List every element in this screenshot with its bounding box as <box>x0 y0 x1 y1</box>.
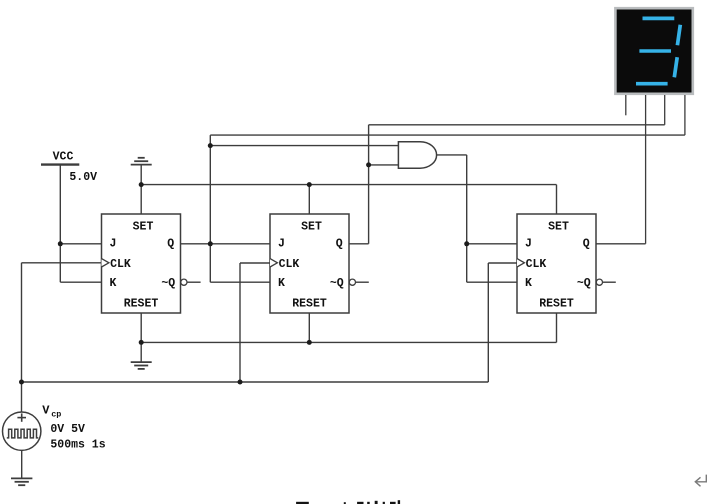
wire CLK1 <box>22 262 102 264</box>
wire AND output drop <box>466 155 468 282</box>
JK flip-flop U1 <box>102 214 187 313</box>
svg-text:~Q: ~Q <box>577 277 591 290</box>
wire RESET stub U3 <box>556 313 558 343</box>
JK flip-flop U2 <box>270 214 356 313</box>
wire CLK3 <box>488 262 517 264</box>
wire CLK3 drop <box>487 263 489 382</box>
wire SET stub U3 <box>556 185 558 214</box>
wire ~Q1 stub <box>187 281 201 283</box>
junction SET bus / ground <box>139 182 144 187</box>
svg-text:500ms 1s: 500ms 1s <box>50 439 105 452</box>
svg-text:Q: Q <box>167 238 174 251</box>
wire ~Q3 stub <box>603 281 616 283</box>
junction VCC / J1 <box>58 241 63 246</box>
junction Q1/displayline <box>208 143 213 148</box>
svg-text:SET: SET <box>301 221 322 234</box>
wire clock bus <box>22 381 489 383</box>
wire CLK2 <box>240 262 270 264</box>
wire VCC to K1 <box>60 281 101 283</box>
wire Q2 to AND input B <box>369 164 399 166</box>
wire Q1 to AND input A <box>210 145 398 147</box>
wire Q1 riser (node Q1) <box>209 135 211 282</box>
display pin 3 wire <box>664 95 666 125</box>
paragraph return mark <box>695 475 706 487</box>
junction RESET bus / U2 <box>307 340 312 345</box>
display pin 2 wire to Q3 <box>645 95 647 244</box>
svg-text:V: V <box>42 403 50 417</box>
svg-text:J: J <box>110 238 117 251</box>
svg-text:K: K <box>525 277 532 290</box>
svg-text:RESET: RESET <box>539 297 574 310</box>
wire CLK1 drop to source <box>21 263 23 412</box>
svg-text:Q: Q <box>336 238 343 251</box>
svg-text:CLK: CLK <box>279 258 300 271</box>
clock source Vcp <box>3 412 41 450</box>
wire Q2 out <box>349 243 369 245</box>
svg-text:Q: Q <box>583 238 590 251</box>
junction SET bus / U2 <box>307 182 312 187</box>
svg-text:RESET: RESET <box>292 297 327 310</box>
VCC power symbol <box>41 150 79 282</box>
svg-text:CLK: CLK <box>526 258 547 271</box>
svg-text:CLK: CLK <box>110 258 131 271</box>
svg-text:RESET: RESET <box>124 297 159 310</box>
wire Q2 to display pin3 <box>369 124 665 126</box>
ground (clock source) <box>11 478 32 485</box>
junction RESET bus / ground <box>139 340 144 345</box>
AND gate U4 <box>398 142 436 169</box>
wire RESET bus <box>141 341 556 343</box>
wire AND output <box>437 154 467 156</box>
wire riser to K2 <box>210 281 270 283</box>
svg-text:SET: SET <box>133 221 154 234</box>
junction AND out / J3 <box>464 241 469 246</box>
ground (below RESET bus) <box>131 362 152 369</box>
svg-text:J: J <box>278 238 285 251</box>
display pin 4 wire <box>684 95 686 135</box>
junction Q2/AND input <box>366 162 371 167</box>
svg-text:VCC: VCC <box>53 150 74 163</box>
wire CLK2 drop <box>239 263 241 382</box>
junction clock bus / source <box>19 380 24 385</box>
junction clock bus / CLK2 <box>238 380 243 385</box>
junction Q1 / riser <box>208 241 213 246</box>
wire VCC to J1 <box>60 243 101 245</box>
seven-segment display U5 showing 3 <box>615 8 692 94</box>
svg-text:5.0V: 5.0V <box>69 171 97 184</box>
svg-text:0V 5V: 0V 5V <box>50 423 85 436</box>
wire SET stub U2 <box>308 185 310 214</box>
svg-text:cp: cp <box>51 409 61 419</box>
wire AND out to J3 <box>467 243 517 245</box>
display pin 1 stub <box>625 95 627 115</box>
wire source to ground <box>21 450 23 478</box>
wire AND out to K3 <box>467 281 517 283</box>
wire Q3 to display pin2 <box>596 243 646 245</box>
svg-text:K: K <box>278 277 285 290</box>
wire RESET stub U1 <box>140 313 142 362</box>
JK flip-flop U3 <box>517 214 603 313</box>
wire Q1 to J2 <box>181 243 271 245</box>
label Vcp <box>42 403 61 419</box>
svg-text:SET: SET <box>548 221 569 234</box>
wire ~Q2 stub <box>356 281 369 283</box>
svg-text:K: K <box>110 277 117 290</box>
svg-text:J: J <box>525 238 532 251</box>
wire Q2 riser (node Q2) <box>368 125 370 244</box>
caption fragment (clipped) <box>296 500 400 504</box>
wire RESET stub U2 <box>308 313 310 342</box>
svg-text:~Q: ~Q <box>161 277 175 290</box>
svg-text:~Q: ~Q <box>330 277 344 290</box>
ground (top, inverted) <box>131 158 152 214</box>
wire SET bus to ground <box>141 184 556 186</box>
wire Q1 to display pin4 <box>210 134 685 136</box>
